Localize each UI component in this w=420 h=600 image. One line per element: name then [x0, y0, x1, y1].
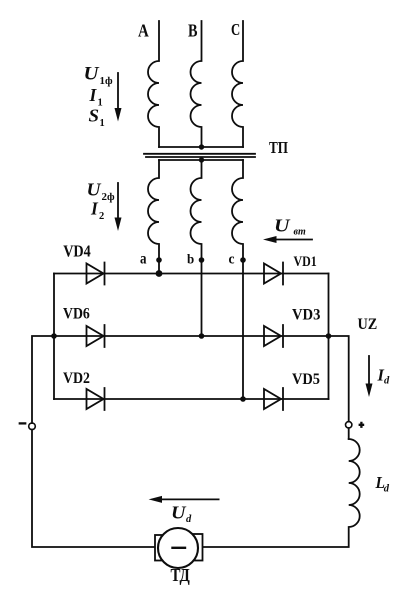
terminal minus circle: [29, 423, 36, 430]
arrow Ud left: [160, 498, 219, 500]
wire phase A with primary winding: [148, 21, 159, 147]
svg-text:VD6: VD6: [63, 306, 90, 323]
wire positive lead: [329, 336, 349, 439]
svg-text:VD3: VD3: [292, 306, 320, 323]
transformer T1 core line upper: [144, 153, 255, 155]
node b dot: [199, 257, 205, 263]
svg-text:VD4: VD4: [63, 242, 91, 261]
svg-text:ТД: ТД: [171, 565, 191, 585]
svg-text:VD5: VD5: [292, 371, 320, 388]
motor brush left: [155, 535, 167, 561]
svg-text:c: c: [229, 252, 235, 268]
arrowhead Ud: [149, 496, 162, 503]
arrow S1 down: [117, 73, 119, 110]
junction dot left bus rail2: [51, 333, 57, 339]
svg-text:B: B: [188, 21, 198, 41]
diode VD2: [87, 388, 105, 410]
wire rectifier rail 3: [54, 398, 329, 400]
svg-text:2ф: 2ф: [102, 191, 116, 203]
svg-text:d: d: [384, 376, 390, 387]
svg-text:U: U: [274, 216, 291, 236]
inductor Ld: [203, 439, 360, 547]
wire secondary b with winding: [191, 160, 202, 336]
svg-text:I: I: [89, 85, 98, 105]
node a dot: [156, 257, 162, 263]
wire phase C with primary winding: [232, 21, 243, 147]
diode VD4: [87, 263, 105, 285]
junction dot c rail3: [240, 396, 246, 402]
wire secondary c with winding: [232, 160, 243, 399]
svg-text:вт: вт: [294, 227, 306, 238]
wire secondary a with winding: [148, 160, 159, 274]
arrowhead S1: [115, 108, 122, 122]
junction dot primary star: [199, 144, 204, 149]
svg-text:ТП: ТП: [269, 138, 288, 157]
junction dot right bus rail2: [326, 333, 332, 339]
svg-text:C: C: [231, 20, 240, 39]
motor brush right: [191, 534, 203, 561]
wire secondary bus: [159, 159, 243, 161]
wire phase B with primary winding: [191, 21, 202, 147]
svg-text:I: I: [90, 199, 99, 219]
svg-text:a: a: [140, 251, 147, 268]
arrow Id down: [368, 356, 370, 386]
svg-text:A: A: [138, 21, 149, 41]
svg-text:VD1: VD1: [294, 254, 317, 270]
svg-text:2: 2: [99, 211, 104, 222]
diode VD5: [264, 388, 283, 410]
svg-text:U: U: [84, 64, 101, 84]
arrowhead U2: [115, 218, 122, 232]
minus sign: [20, 422, 25, 424]
terminal plus circle: [346, 422, 352, 428]
arrow U2 down: [117, 183, 119, 220]
wire rectifier rail 2: [54, 335, 329, 337]
arrowhead Uvt: [263, 236, 277, 243]
svg-text:U: U: [87, 180, 103, 200]
svg-text:S: S: [89, 105, 100, 125]
wire right bus: [328, 274, 330, 400]
motor armature dash: [173, 547, 186, 549]
diode VD1: [264, 263, 283, 285]
diode VD3: [264, 325, 283, 347]
wire left bus: [53, 274, 55, 400]
junction dot b rail2: [199, 333, 205, 339]
wire rectifier rail 1: [54, 273, 329, 275]
svg-text:1ф: 1ф: [100, 75, 114, 87]
junction dot a rail1: [156, 270, 163, 277]
junction dot secondary star: [199, 157, 204, 162]
transformer T1 core line lower: [146, 156, 255, 158]
svg-text:1: 1: [100, 118, 105, 129]
svg-text:U: U: [171, 503, 187, 523]
svg-text:d: d: [384, 483, 390, 494]
svg-text:UZ: UZ: [358, 316, 378, 333]
svg-text:VD2: VD2: [63, 370, 90, 387]
arrowhead Id: [366, 384, 373, 398]
wire primary star bus: [159, 146, 243, 148]
svg-text:d: d: [186, 514, 192, 525]
motor TD circle: [158, 528, 198, 568]
arrow Uvt left: [274, 239, 312, 241]
wire negative lead: [32, 336, 155, 547]
diode VD6: [87, 325, 105, 347]
node c dot: [240, 257, 246, 263]
svg-text:b: b: [187, 253, 194, 268]
label plus: [359, 422, 365, 428]
